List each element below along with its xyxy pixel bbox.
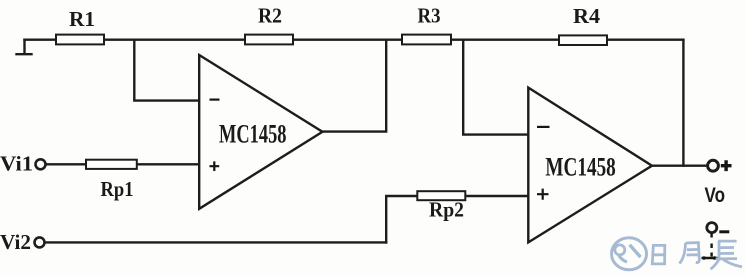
- svg-text:R4: R4: [573, 4, 601, 28]
- svg-text:R1: R1: [69, 7, 95, 31]
- svg-text:Vi1: Vi1: [0, 151, 33, 175]
- svg-text:Rp2: Rp2: [429, 198, 464, 222]
- svg-text:R3: R3: [418, 4, 441, 28]
- svg-text:R2: R2: [258, 4, 282, 28]
- svg-text:Vo: Vo: [705, 184, 726, 207]
- svg-text:MC1458: MC1458: [545, 153, 615, 182]
- svg-text:Rp1: Rp1: [101, 177, 134, 201]
- svg-text:Vi2: Vi2: [0, 230, 31, 254]
- svg-text:MC1458: MC1458: [219, 119, 287, 148]
